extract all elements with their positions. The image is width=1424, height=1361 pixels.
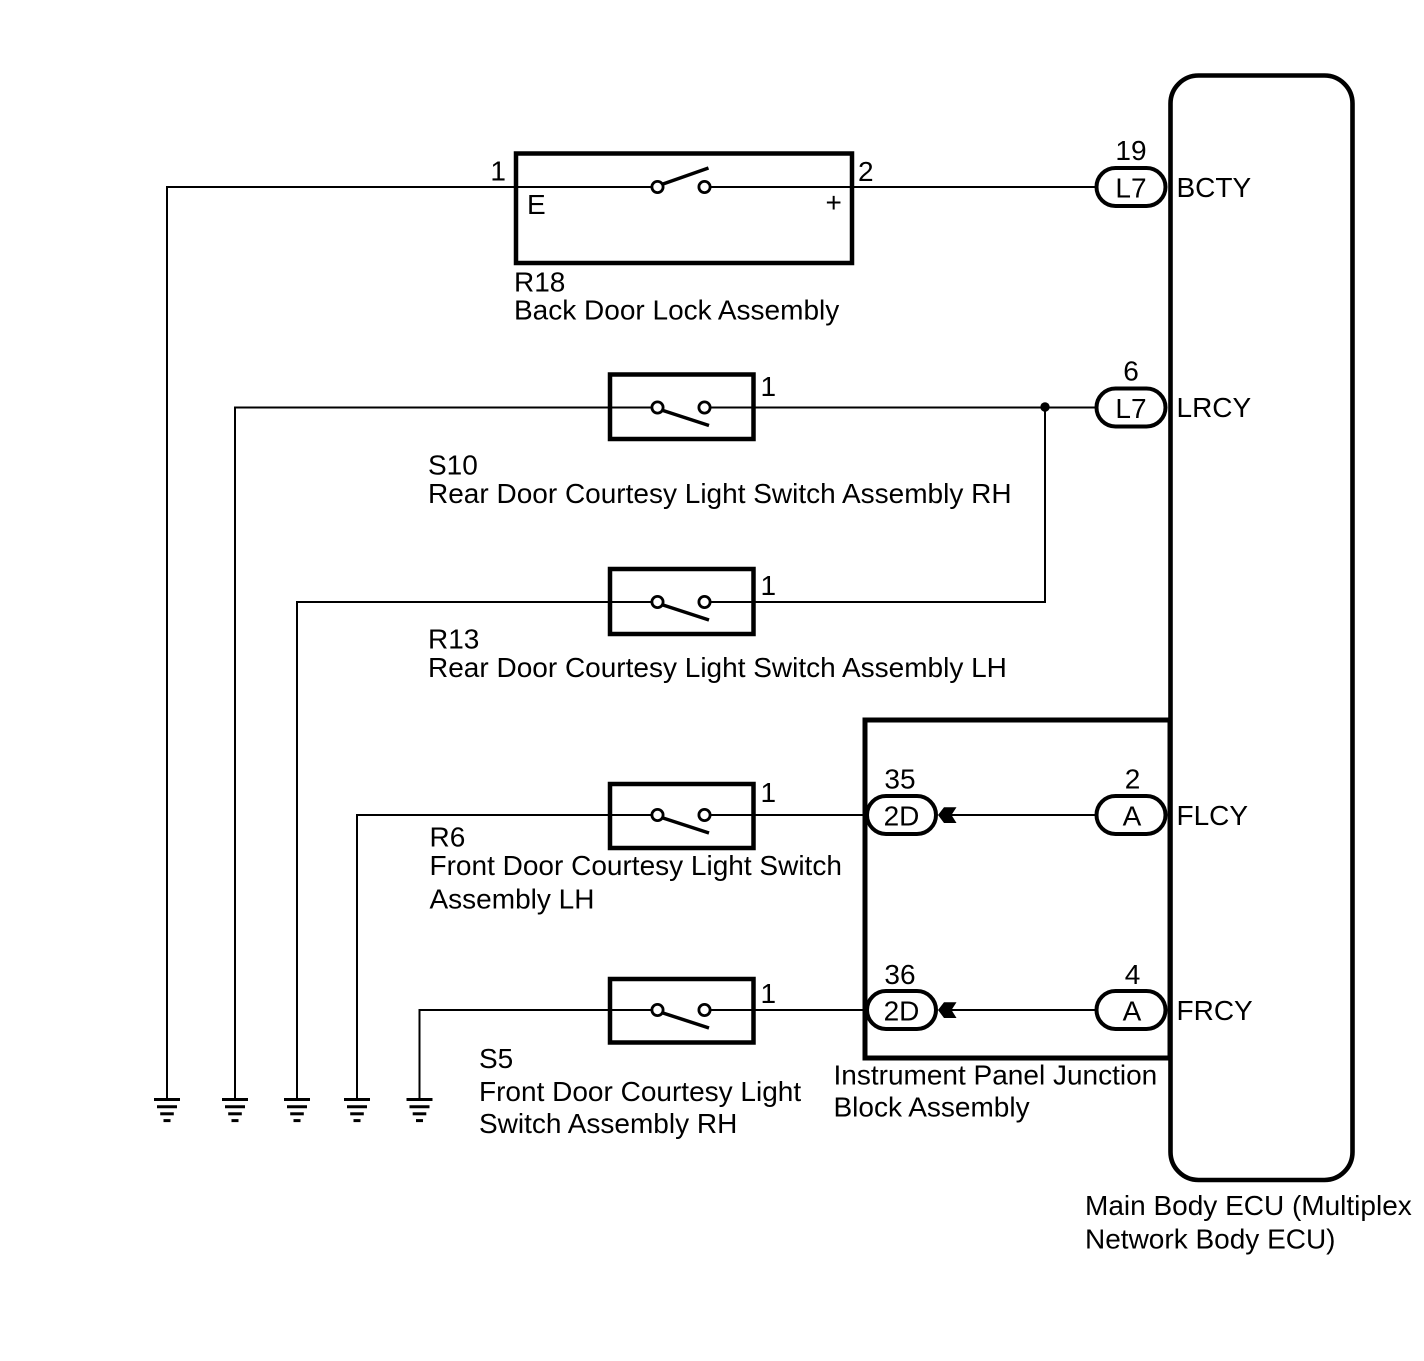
svg-text:19: 19 [1115, 135, 1146, 166]
svg-text:Back Door Lock Assembly: Back Door Lock Assembly [514, 295, 839, 326]
svg-text:1: 1 [490, 156, 506, 187]
svg-text:S10: S10 [428, 450, 478, 481]
svg-text:Block Assembly: Block Assembly [834, 1092, 1030, 1123]
svg-text:1: 1 [761, 371, 777, 402]
svg-text:R18: R18 [514, 267, 565, 298]
svg-text:Switch Assembly RH: Switch Assembly RH [479, 1108, 737, 1139]
svg-text:6: 6 [1123, 356, 1139, 387]
svg-text:Assembly LH: Assembly LH [430, 884, 595, 915]
svg-text:2D: 2D [884, 996, 920, 1027]
svg-text:2D: 2D [884, 801, 920, 832]
svg-text:Rear Door Courtesy Light Switc: Rear Door Courtesy Light Switch Assembly… [428, 478, 1012, 509]
svg-text:1: 1 [761, 570, 777, 601]
svg-text:4: 4 [1125, 959, 1141, 990]
svg-text:Main Body ECU (Multiplex: Main Body ECU (Multiplex [1085, 1190, 1412, 1221]
svg-text:R13: R13 [428, 624, 479, 655]
svg-text:FRCY: FRCY [1177, 995, 1254, 1026]
svg-text:1: 1 [761, 978, 777, 1009]
svg-text:L7: L7 [1115, 173, 1146, 204]
svg-text:35: 35 [884, 764, 915, 795]
svg-text:L7: L7 [1115, 393, 1146, 424]
svg-text:S5: S5 [479, 1043, 513, 1074]
svg-text:A: A [1123, 801, 1142, 832]
svg-text:E: E [527, 189, 546, 220]
svg-text:A: A [1123, 996, 1142, 1027]
svg-text:2: 2 [858, 156, 874, 187]
svg-text:LRCY: LRCY [1177, 392, 1252, 423]
svg-text:BCTY: BCTY [1177, 172, 1252, 203]
svg-text:2: 2 [1125, 764, 1141, 795]
svg-text:Instrument Panel Junction: Instrument Panel Junction [834, 1060, 1158, 1091]
svg-text:1: 1 [761, 777, 777, 808]
svg-text:36: 36 [884, 959, 915, 990]
svg-text:Front Door Courtesy Light Swit: Front Door Courtesy Light Switch [430, 850, 842, 881]
svg-text:Front Door Courtesy Light: Front Door Courtesy Light [479, 1076, 801, 1107]
svg-text:Network Body ECU): Network Body ECU) [1085, 1224, 1336, 1255]
svg-text:R6: R6 [430, 822, 466, 853]
svg-text:+: + [826, 187, 842, 218]
svg-text:Rear Door Courtesy Light Switc: Rear Door Courtesy Light Switch Assembly… [428, 652, 1007, 683]
svg-text:FLCY: FLCY [1177, 800, 1249, 831]
